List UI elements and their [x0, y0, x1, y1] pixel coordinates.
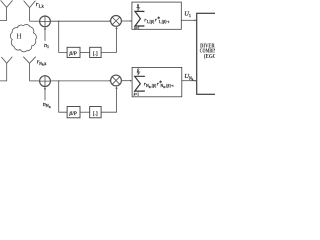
- block diversity combiner (EGC): [197, 13, 221, 94]
- svg-text:k=1: k=1: [134, 92, 140, 96]
- block [.] limiter (row1): [90, 47, 101, 57]
- adder A2 (sum node row2): [40, 76, 51, 87]
- wire branch down to beta/P block (row1): [59, 21, 67, 52]
- block beta/P (row1): [67, 47, 80, 57]
- block correlator sum1: [132, 2, 181, 29]
- svg-text:nNR: nNR: [43, 102, 51, 109]
- sigma symbol row1: [135, 11, 144, 26]
- multiplier M1 (product node): [111, 16, 122, 27]
- node junction J2: [58, 80, 59, 81]
- wire [.] to multiplier2 riser: [101, 86, 118, 112]
- node junction J1: [58, 21, 59, 22]
- svg-text:[.]: [.]: [93, 111, 98, 117]
- svg-text:UNR: UNR: [184, 73, 193, 81]
- svg-text:r1,[β]r∗1,[β]-τ: r1,[β]r∗1,[β]-τ: [144, 15, 170, 25]
- block correlator sum2: [132, 67, 182, 96]
- antenna RX1 (receive antenna 1): [24, 1, 36, 22]
- svg-text:H: H: [16, 33, 21, 41]
- block beta/P (row2): [67, 107, 80, 118]
- arrow into multiplier2 left: [110, 80, 111, 82]
- svg-text:rNR,[β]r∗NR,[β]-τ: rNR,[β]r∗NR,[β]-τ: [144, 79, 174, 89]
- antenna TX2 (bottom-left transmit antenna): [0, 57, 12, 81]
- antenna TX1 (top-left transmit antenna): [0, 0, 13, 20]
- wire RX2 to adder2: [30, 80, 40, 82]
- svg-text:k=1: k=1: [134, 26, 140, 30]
- svg-text:P: P: [137, 8, 139, 12]
- noise input n1: [44, 27, 46, 41]
- cloud H (channel): [10, 25, 36, 52]
- svg-text:U1: U1: [184, 11, 191, 19]
- wire sum2 to combiner with arrow: [182, 80, 197, 82]
- wire multiplier1 to sum block1: [121, 20, 131, 22]
- upper limit beta/P row1: [136, 3, 140, 12]
- wire multiplier2 to sum block2: [121, 80, 131, 82]
- arrow into multiplier1 left: [110, 20, 111, 22]
- svg-text:(EGC): (EGC): [204, 53, 215, 60]
- svg-text:β/P: β/P: [68, 111, 76, 117]
- sigma symbol row2: [135, 76, 145, 91]
- antenna RX2 (receive antenna N_R): [23, 57, 35, 81]
- wire [.] to multiplier1 riser: [101, 27, 118, 53]
- block [.] limiter (row2): [90, 107, 101, 118]
- wire beta/P to [.] (row1): [80, 51, 90, 53]
- wire branch down to beta/P block (row2): [59, 81, 67, 112]
- svg-text:rNR,k: rNR,k: [37, 58, 47, 67]
- wire beta/P to [.] (row2): [80, 111, 90, 113]
- multiplier M2 (product node row2): [111, 75, 122, 86]
- wire sum1 to combiner with arrow: [181, 19, 196, 21]
- adder A1 (sum node): [40, 16, 51, 27]
- wire adder1 to multiplier1: [50, 20, 110, 22]
- svg-text:P: P: [138, 72, 140, 76]
- upper limit beta/P row2: [136, 67, 140, 76]
- svg-text:β/P: β/P: [68, 51, 76, 57]
- svg-text:n1: n1: [44, 43, 49, 49]
- svg-text:[.]: [.]: [93, 51, 98, 57]
- wire RX1 to adder: [30, 20, 40, 22]
- wire adder2 to multiplier2: [50, 80, 110, 82]
- svg-text:r1,k: r1,k: [36, 1, 45, 10]
- noise input n_NR: [44, 87, 46, 101]
